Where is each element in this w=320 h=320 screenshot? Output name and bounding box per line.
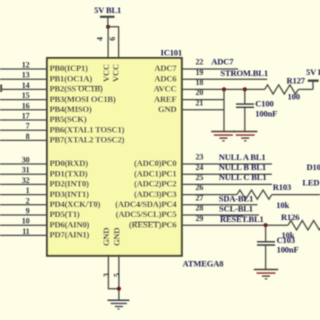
svg-text:100: 100 [288,92,300,102]
svg-text:PB3(MOSI OC1B): PB3(MOSI OC1B) [50,94,116,104]
svg-text:VCC: VCC [101,64,111,82]
svg-text:PB7(XTAL2 TOSC2): PB7(XTAL2 TOSC2) [50,135,125,145]
svg-text:(ADC5/SCL)PC5: (ADC5/SCL)PC5 [116,209,177,219]
junction RESET [264,223,268,227]
wire pin8 [0,139,47,141]
svg-text:5V BL1: 5V BL1 [94,5,121,15]
svg-text:SCL-BL1: SCL-BL1 [219,204,253,214]
ground G3 [254,270,278,279]
wire net SDA [181,204,258,206]
svg-text:PB4(MISO): PB4(MISO) [50,104,92,114]
svg-text:2: 2 [26,196,30,205]
svg-text:1: 1 [26,186,30,195]
ground bottom [108,300,130,309]
svg-text:PB5(SCK): PB5(SCK) [50,114,87,124]
wire R103 to LED [272,194,320,196]
svg-text:NULL B BL1: NULL B BL1 [219,162,266,172]
svg-text:32: 32 [22,176,30,185]
IC IC101 ATMEGA8 [47,58,182,256]
wire pin6 VCC jog [108,27,119,58]
wire net NULL A [181,163,272,165]
svg-text:5V BL1: 5V BL1 [306,67,320,77]
svg-text:5: 5 [113,273,122,277]
wire gnd drop [223,89,225,131]
wire power stem [107,17,109,27]
svg-text:14: 14 [22,81,30,90]
junction AVCC b [243,87,247,91]
wire pin13 [0,78,47,80]
svg-text:ATMEGA8: ATMEGA8 [183,259,224,269]
svg-text:PD7(AIN1): PD7(AIN1) [50,230,90,240]
ground G2 [233,132,257,141]
svg-text:SDA-BL1: SDA-BL1 [219,193,253,203]
wire net NULL C [181,183,272,185]
power bar 5V top [100,16,115,18]
svg-text:27: 27 [196,193,204,202]
wire net SCL [181,214,259,216]
wire pin14 [0,88,47,90]
svg-text:GND: GND [111,228,121,246]
svg-text:13: 13 [22,71,30,80]
svg-text:PB2(SS OC1B): PB2(SS OC1B) [50,84,104,94]
svg-text:PD1(TXD): PD1(TXD) [50,168,88,178]
junction AVCC a [222,87,226,91]
svg-text:PB0(ICP1): PB0(ICP1) [50,63,89,73]
wire pin17 [0,119,47,121]
svg-text:7: 7 [26,122,30,131]
wire pin4 VCC [107,27,109,58]
svg-text:17: 17 [22,112,30,121]
wire pin7 [0,129,47,131]
wire pin2 [0,204,47,206]
wire net RESET [181,224,288,226]
svg-text:ADC7: ADC7 [211,57,234,67]
svg-text:LED B: LED B [302,178,320,188]
wire GND21 [181,109,224,111]
svg-text:NULL C BL1: NULL C BL1 [219,172,267,182]
svg-text:23: 23 [196,153,204,162]
svg-text:31: 31 [22,166,30,175]
resistor R126 [288,221,320,230]
svg-text:18: 18 [196,78,204,87]
wire pin10 [0,224,47,226]
svg-text:(ADC2)PC2: (ADC2)PC2 [134,179,177,189]
svg-text:PD6(AIN0): PD6(AIN0) [50,219,90,229]
wire net ADC7 [181,68,238,70]
svg-text:8: 8 [26,132,30,141]
svg-text:100nF: 100nF [255,109,277,119]
svg-text:IC101: IC101 [161,48,182,58]
svg-text:AVCC: AVCC [154,84,177,94]
svg-text:(ADC3)PC3: (ADC3)PC3 [134,189,177,199]
wire pin12 [0,68,47,70]
svg-text:GND: GND [101,228,111,246]
resistor R127 [265,85,299,94]
svg-text:PD5(T1): PD5(T1) [50,209,80,219]
wire AREF [181,99,224,101]
svg-text:(ADC4/SDA)PC4: (ADC4/SDA)PC4 [115,199,177,209]
svg-text:ADC7: ADC7 [154,63,177,73]
svg-text:24: 24 [196,163,204,172]
svg-text:PD3(INT1): PD3(INT1) [50,189,90,199]
overline RESET net [220,215,244,217]
wire net STROM [181,78,267,80]
wire AVCC [181,88,265,90]
svg-text:R127: R127 [287,76,306,86]
svg-text:11: 11 [22,227,29,236]
overline OC1B [76,85,102,87]
svg-text:PD4(XCK/T0): PD4(XCK/T0) [50,199,101,209]
svg-text:PB1(OC1A): PB1(OC1A) [50,73,93,83]
resistor R103 [237,190,272,199]
overline RESET pin [134,221,159,223]
wire power stem right [312,81,314,90]
power bar 5V right [308,79,319,81]
svg-text:10k: 10k [276,200,289,210]
wire pin15 [0,99,47,101]
wire pin3 gnd [108,255,119,289]
capacitor C103 [257,225,275,270]
capacitor C100 [236,89,254,131]
svg-text:12: 12 [22,61,30,70]
svg-text:20: 20 [196,88,204,97]
svg-text:21: 21 [196,98,204,107]
wire R127 to 5V [298,88,313,90]
svg-text:29: 29 [196,214,204,223]
svg-text:PD0(RXD): PD0(RXD) [50,158,89,168]
svg-text:6: 6 [108,37,117,41]
svg-text:(ADC0)PC0: (ADC0)PC0 [134,158,177,168]
wire pin9 [0,214,47,216]
svg-text:STROM.BL1: STROM.BL1 [220,68,268,78]
wire pin16 [0,109,47,111]
svg-text:ADC6: ADC6 [154,73,176,83]
svg-text:30: 30 [22,156,30,165]
wire pin32 [0,183,47,185]
wire pin5 gnd [118,255,120,301]
svg-text:19: 19 [196,68,204,77]
svg-text:PD2(INT0): PD2(INT0) [50,179,90,189]
svg-text:R103: R103 [273,182,291,192]
svg-text:10: 10 [22,217,30,226]
wire stub left edge [0,85,2,93]
wire to R103 [181,194,237,196]
svg-text:AREF: AREF [154,94,177,104]
svg-text:28: 28 [196,204,204,213]
svg-text:D101: D101 [307,162,320,172]
svg-text:4: 4 [96,37,105,41]
svg-text:26: 26 [196,183,204,192]
svg-text:22: 22 [196,58,204,67]
svg-text:VCC: VCC [110,64,120,82]
svg-text:9: 9 [26,207,30,216]
svg-text:R126: R126 [281,212,299,222]
junction bottom [117,287,121,291]
wire net NULL B [181,173,272,175]
svg-text:16: 16 [22,101,30,110]
svg-text:3: 3 [102,273,111,277]
junction top [106,25,110,29]
svg-text:C100: C100 [255,99,273,109]
svg-text:NULL A BL1: NULL A BL1 [219,152,266,162]
ground G1 [211,132,235,141]
wire pin31 [0,173,47,175]
svg-text:100nF: 100nF [277,244,299,254]
svg-text:25: 25 [196,173,204,182]
wire pin1 [0,194,47,196]
wire pin30 [0,163,47,165]
svg-text:PB6(XTAL1 TOSC1): PB6(XTAL1 TOSC1) [50,124,125,134]
wire pin11 [0,234,47,236]
svg-text:(ADC1)PC1: (ADC1)PC1 [134,168,177,178]
svg-text:(RESET)PC6: (RESET)PC6 [129,220,177,230]
svg-text:15: 15 [22,91,30,100]
svg-text:GND: GND [158,104,176,114]
